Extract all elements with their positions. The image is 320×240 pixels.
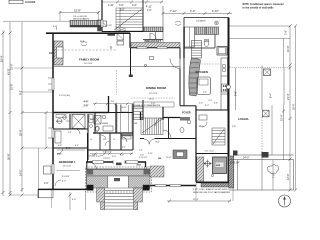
svg-text:2'-10": 2'-10" — [107, 25, 113, 27]
shrub symbol — [267, 165, 278, 174]
kitchen right counter — [221, 58, 228, 110]
stair upper run vertical — [134, 106, 144, 120]
kitchen island — [197, 77, 211, 95]
right dimension vertical — [289, 26, 291, 190]
svg-text:62'-4": 62'-4" — [0, 55, 3, 62]
fridge — [217, 47, 227, 56]
porch bottom dims — [69, 192, 71, 210]
stove — [222, 84, 227, 92]
svg-text:DN: DN — [158, 158, 162, 160]
foyer door opening + arcs — [144, 137, 155, 140]
bedroom west dim line — [38, 148, 40, 189]
svg-text:2'-8": 2'-8" — [232, 126, 236, 128]
svg-text:BREAKFAST: BREAKFAST — [145, 40, 162, 43]
svg-text:CL: CL — [113, 139, 115, 141]
cluster top dim row — [93, 103, 133, 105]
svg-text:FOYER: FOYER — [182, 112, 191, 115]
svg-text:5'-4 3/4": 5'-4 3/4" — [62, 176, 70, 178]
svg-text:5'-4": 5'-4" — [205, 105, 209, 107]
stair diagonal — [142, 119, 162, 133]
svg-text:10' CLG: 10' CLG — [149, 93, 157, 95]
porch side aprons — [97, 188, 105, 202]
svg-text:3 1/2" CONC. SLAB W/ 6x6 W1.4x: 3 1/2" CONC. SLAB W/ 6x6 W1.4xW1.4 — [193, 188, 229, 191]
svg-text:6'-2": 6'-2" — [209, 100, 213, 102]
vestibule gray slab — [213, 157, 227, 174]
texts below rear porch — [193, 188, 231, 194]
porch right floor — [128, 176, 150, 188]
dims above upper stair — [102, 1, 163, 3]
svg-text:1'-6": 1'-6" — [147, 10, 152, 12]
compass circle — [279, 195, 291, 207]
svg-text:4'-0": 4'-0" — [75, 145, 79, 147]
patio vertical dim — [272, 160, 274, 190]
svg-text:3'-6": 3'-6" — [119, 4, 124, 7]
foyer north wall — [140, 138, 196, 140]
door arc dining east — [170, 59, 180, 69]
svg-text:21'-4": 21'-4" — [280, 115, 283, 121]
porch columns — [87, 170, 93, 175]
svg-text:5'-0": 5'-0" — [66, 148, 71, 150]
svg-text:21'-4": 21'-4" — [286, 93, 290, 100]
loggia column upper — [263, 110, 270, 117]
shower X small — [94, 116, 101, 125]
svg-text:3'-6": 3'-6" — [132, 4, 137, 7]
dim texts above bottom wall — [92, 155, 172, 160]
dim texts rows — [58, 145, 116, 183]
top dimension line left span — [60, 12, 99, 14]
title block label top-left — [9, 0, 36, 4]
svg-text:9'-2": 9'-2" — [18, 90, 22, 95]
vestibule fan symbol — [204, 160, 212, 168]
svg-text:3'-0": 3'-0" — [156, 142, 160, 144]
deck hatch band — [70, 20, 102, 27]
long ext line into left margin — [3, 20, 70, 22]
dashed line of ceiling family room — [54, 49, 116, 51]
X box closet (tub) — [72, 115, 85, 129]
shelf hatch band — [195, 27, 219, 35]
fan circle — [215, 21, 219, 25]
svg-text:20'-8": 20'-8" — [6, 153, 10, 160]
svg-text:3'-0": 3'-0" — [44, 183, 49, 185]
svg-text:2'-10": 2'-10" — [108, 5, 114, 7]
cluster inner walls — [53, 104, 133, 160]
vestibule dim ext — [195, 184, 197, 202]
left dimension line A — [2, 30, 4, 196]
vestibule left hatch strip — [197, 157, 204, 181]
svg-text:3'-0": 3'-0" — [62, 181, 66, 183]
top wall — [184, 17, 229, 19]
svg-text:3'-6": 3'-6" — [120, 155, 124, 157]
svg-text:18'-4": 18'-4" — [18, 129, 22, 136]
svg-text:7'-10": 7'-10" — [170, 9, 177, 13]
left wall — [183, 18, 185, 49]
vestibule bottom wall — [196, 181, 229, 183]
svg-text:10' CLG: 10' CLG — [84, 63, 92, 65]
left dimension line B — [9, 22, 11, 196]
svg-text:5'-11": 5'-11" — [148, 153, 153, 155]
porch steps — [105, 191, 134, 210]
stair treads — [116, 8, 143, 31]
rear stair treads — [212, 128, 225, 145]
svg-text:24'-0": 24'-0" — [243, 156, 249, 159]
closet left — [185, 27, 195, 47]
stair lower run horizontal — [141, 118, 163, 135]
hall below stair: door arc — [150, 33, 156, 39]
bottom center dim line — [57, 149, 85, 151]
fan symbol deck — [175, 21, 181, 25]
loggia columns verticals — [235, 68, 237, 110]
svg-text:MUD: MUD — [199, 126, 204, 128]
svg-text:10'-6 3/4": 10'-6 3/4" — [230, 163, 240, 165]
small box with X right of deck — [102, 21, 107, 27]
svg-text:W.I.C.: W.I.C. — [122, 107, 128, 109]
wall x130 between family and dining — [129, 33, 131, 48]
svg-text:2'-6": 2'-6" — [68, 132, 72, 134]
porch upper checkered band — [87, 170, 150, 177]
svg-text:4'-6": 4'-6" — [84, 101, 89, 104]
svg-text:BATH 2: BATH 2 — [56, 120, 64, 123]
svg-text:3'-10 1/2": 3'-10 1/2" — [139, 157, 148, 159]
svg-text:2'-4": 2'-4" — [139, 150, 143, 152]
svg-text:BEDROOM 1: BEDROOM 1 — [59, 160, 76, 164]
bottom-left dim ticks — [9, 194, 12, 197]
foyer door arc — [155, 118, 163, 126]
bottom wall of house center — [86, 161, 146, 163]
left dim extension lines — [14, 68, 53, 148]
pantry divider — [214, 35, 216, 49]
svg-text:3'-6": 3'-6" — [214, 103, 218, 105]
svg-text:5'-10 1/2": 5'-10 1/2" — [103, 152, 112, 154]
hall toilet area fixtures — [95, 127, 99, 132]
svg-text:CL: CL — [103, 139, 105, 141]
svg-text:NOTE: Conditioned space is mea: NOTE: Conditioned space is measured — [243, 2, 284, 6]
left dim rotated texts — [0, 55, 22, 176]
svg-text:FAMILY ROOM: FAMILY ROOM — [79, 58, 100, 62]
dashed line loggia top — [230, 67, 291, 69]
svg-text:16'-0": 16'-0" — [149, 98, 155, 100]
svg-text:4'-0": 4'-0" — [72, 199, 77, 201]
svg-text:8'-4": 8'-4" — [269, 93, 272, 98]
svg-text:6'-8": 6'-8" — [58, 145, 62, 147]
svg-text:5'-0": 5'-0" — [190, 9, 195, 13]
svg-text:LOGGIA: LOGGIA — [238, 117, 249, 121]
svg-text:BATH: BATH — [90, 118, 96, 121]
window tick marks left wall — [48, 78, 52, 138]
sub-dim line left of bedroom — [45, 113, 47, 149]
outlet dot — [110, 47, 112, 49]
landing shelf band — [144, 27, 164, 32]
outermost right dim line — [295, 26, 297, 190]
cluster dim rows — [57, 154, 133, 171]
svg-text:9'-8": 9'-8" — [234, 91, 237, 96]
svg-text:10' CLG: 10' CLG — [63, 165, 71, 167]
porch steps side walls — [101, 188, 105, 210]
svg-text:10'-8": 10'-8" — [10, 83, 14, 90]
svg-text:12'-0": 12'-0" — [286, 173, 290, 180]
right exterior wall — [228, 18, 230, 183]
hearth room bottom wall — [146, 185, 197, 187]
kitchen west wall — [183, 27, 185, 58]
svg-text:11'-0": 11'-0" — [92, 155, 97, 157]
window in stair left wall — [101, 20, 103, 27]
left dimension line C — [21, 22, 23, 192]
svg-text:14'-0": 14'-0" — [18, 169, 22, 176]
wall below deck band — [131, 47, 180, 49]
svg-text:5'-8" x 6'-2": 5'-8" x 6'-2" — [205, 150, 215, 152]
hall wall — [143, 39, 163, 41]
svg-text:32'-0": 32'-0" — [292, 103, 296, 110]
bedroom door arc — [88, 162, 97, 171]
east wall of porch nook — [145, 162, 147, 186]
svg-text:2'-0": 2'-0" — [199, 103, 203, 105]
rear dim line — [167, 200, 231, 202]
left exterior wall — [52, 33, 54, 190]
under-stair closets — [108, 34, 116, 36]
svg-text:1/2 BATH: 1/2 BATH — [196, 20, 206, 23]
sw bay stub — [37, 189, 39, 198]
svg-text:3'-0": 3'-0" — [112, 156, 116, 158]
family room bottom wall — [53, 112, 109, 114]
sink circles — [222, 64, 226, 68]
deck dark edge — [70, 25, 102, 27]
svg-text:DN: DN — [134, 123, 138, 125]
windows on bottom wall — [93, 161, 104, 163]
bedroom bottom wall — [38, 188, 87, 190]
porch dashed outline — [86, 167, 152, 192]
svg-text:5'-4": 5'-4" — [151, 103, 155, 105]
svg-text:2'-8": 2'-8" — [84, 106, 89, 108]
svg-text:WWM ON 6 MIL POLY VAPOR BARRIE: WWM ON 6 MIL POLY VAPOR BARRIER — [193, 191, 231, 194]
hall walls around stair — [142, 100, 144, 120]
fireplace family room — [54, 41, 63, 65]
dashed ceiling line box dining — [134, 102, 174, 107]
landing wall below stairs — [102, 31, 163, 33]
svg-text:1/2 x 6 WOOD: 1/2 x 6 WOOD — [73, 16, 88, 18]
bottom wall of half bath — [184, 47, 215, 49]
porch top edge — [86, 168, 150, 170]
left dim ticks — [2, 32, 24, 195]
wic shelves — [117, 105, 132, 132]
right top horizontals — [229, 25, 290, 27]
toilet — [204, 41, 208, 47]
svg-text:5'-0" EQ EQ: 5'-0" EQ EQ — [59, 95, 70, 97]
loggia sw column — [233, 151, 238, 156]
svg-text:3'-2": 3'-2" — [122, 147, 126, 149]
svg-text:DECK BOARDS: DECK BOARDS — [73, 18, 89, 21]
loggia south edge — [237, 154, 294, 156]
loggia column lower — [262, 152, 269, 158]
right flank hatch — [150, 166, 164, 177]
doormat — [114, 178, 120, 181]
svg-text:KITCHEN: KITCHEN — [196, 70, 208, 74]
svg-text:DINING ROOM: DINING ROOM — [146, 86, 167, 90]
door threshold — [116, 163, 122, 166]
porch left floor — [87, 176, 108, 188]
extra cluster details — [56, 115, 131, 159]
top wall family room — [46, 32, 130, 34]
bedroom1 east wall — [87, 133, 89, 162]
closet hall subdivision — [100, 133, 110, 150]
svg-text:LINEN: LINEN — [102, 123, 108, 125]
kitchen dashed soffit — [196, 63, 221, 65]
svg-text:31'-0": 31'-0" — [10, 63, 14, 70]
svg-text:4'-11": 4'-11" — [146, 6, 152, 9]
stair right wall — [142, 0, 144, 32]
svg-text:1st BLOCK: 1st BLOCK — [25, 0, 36, 4]
svg-text:2'-8": 2'-8" — [285, 30, 288, 35]
pwd hatch — [180, 117, 190, 121]
svg-text:5'-0": 5'-0" — [120, 10, 125, 12]
bath fixtures — [55, 116, 127, 156]
mudroom fixtures — [199, 115, 207, 127]
svg-text:7'-2": 7'-2" — [274, 173, 276, 178]
porch center landing — [108, 176, 129, 188]
svg-text:10'-0": 10'-0" — [286, 45, 290, 52]
stair diagonal — [114, 9, 142, 30]
family rm east wall stub — [108, 96, 110, 113]
note text top-right — [243, 2, 284, 9]
windows in deck wall — [137, 47, 147, 49]
svg-text:to the outside of stud walls: to the outside of stud walls — [243, 5, 275, 9]
kitchen south wall — [180, 105, 196, 107]
dining east wall — [179, 48, 181, 59]
top dimension line right span — [163, 12, 232, 14]
svg-text:5'-4": 5'-4" — [203, 92, 207, 94]
svg-text:12'-8": 12'-8" — [166, 157, 172, 159]
svg-text:15'-8": 15'-8" — [74, 9, 81, 13]
svg-text:CL: CL — [90, 139, 92, 141]
door opening at entry — [113, 160, 125, 164]
window tag dining — [150, 57, 154, 60]
dashed ceiling break — [116, 70, 118, 95]
svg-text:W-R: W-R — [80, 41, 85, 43]
svg-text:3'-6": 3'-6" — [57, 154, 62, 156]
fan symbol family room — [81, 42, 87, 46]
bedroom small door bottom-left — [55, 180, 61, 186]
stair left wall — [101, 0, 103, 32]
svg-text:6'-10": 6'-10" — [212, 9, 219, 13]
vestibule north wall — [196, 153, 229, 155]
svg-text:3'-0": 3'-0" — [111, 101, 115, 103]
svg-text:LINE OF 8" BEAM ABOVE: LINE OF 8" BEAM ABOVE — [136, 104, 161, 107]
svg-text:2'-0": 2'-0" — [53, 26, 58, 28]
planter box outside left wall — [44, 166, 52, 174]
windows on left wall — [52, 78, 54, 174]
